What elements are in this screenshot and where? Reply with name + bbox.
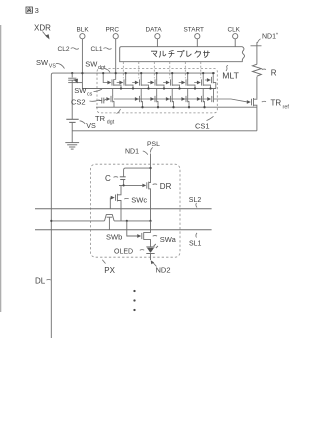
label SWa <box>153 235 157 238</box>
svg-text:SWa: SWa <box>160 235 177 244</box>
wire middle bus <box>82 88 216 90</box>
transistor DR <box>142 184 146 188</box>
transistor SWdgt row1 #5 <box>166 79 172 86</box>
transistor TRdgt row2 #5 <box>197 96 203 103</box>
svg-text:BLK: BLK <box>77 27 90 34</box>
junction dots middle bus <box>120 87 212 89</box>
transistor TRref <box>252 98 257 131</box>
svg-text:OLED: OLED <box>114 248 133 255</box>
junction dots top bus <box>71 72 214 74</box>
capacitor CS2 <box>99 98 107 104</box>
transistor SWvs <box>68 73 82 119</box>
svg-text:CS1: CS1 <box>195 121 210 130</box>
transistor SWa <box>127 221 151 247</box>
svg-text:ref: ref <box>283 105 290 111</box>
wire scan line SL1 <box>35 229 212 231</box>
svg-text:CL1: CL1 <box>91 46 103 53</box>
transistor TRdgt row2 #4 <box>181 96 187 103</box>
transistor SWc <box>110 185 121 221</box>
svg-text:SW: SW <box>85 60 98 69</box>
wire CL1 vertical from PRC <box>115 39 117 80</box>
svg-text:CLK: CLK <box>228 27 241 34</box>
transistor TRdgt row2 #3 <box>166 96 172 103</box>
svg-text:3: 3 <box>35 6 39 15</box>
wire ND1 to capacitor C <box>124 168 151 177</box>
svg-text:TR: TR <box>95 114 106 123</box>
ground <box>65 143 79 150</box>
svg-text:MLT: MLT <box>222 70 239 80</box>
svg-text:CS2: CS2 <box>71 98 86 107</box>
node ND2 <box>153 262 157 267</box>
transistor SWb <box>105 215 115 230</box>
svg-text:CL2: CL2 <box>58 46 70 53</box>
wire TRref gate feed <box>214 99 248 102</box>
junction node ND1 <box>149 167 151 169</box>
multiplexer label マルチプレクサ <box>151 51 157 57</box>
wire ND1' top tick <box>251 45 262 47</box>
wire row2 gate chain <box>114 98 207 100</box>
svg-text:START: START <box>184 27 204 34</box>
junction dots bottom bus <box>141 106 205 108</box>
transistor SWdgt row1 #2 <box>119 79 125 86</box>
wire CL2 vertical from BLK <box>81 39 83 89</box>
svg-text:C: C <box>105 174 111 183</box>
svg-text:ND1: ND1 <box>125 148 139 155</box>
battery VS source <box>66 119 78 142</box>
wire ND1' vertical upper <box>256 42 258 64</box>
svg-text:cs: cs <box>87 92 93 98</box>
wire PSL vertical <box>150 154 152 183</box>
svg-text:PRC: PRC <box>106 27 120 34</box>
transistor TRdgt row2 #2 <box>150 96 156 103</box>
transistor TRdgt row2 #1 <box>135 96 141 103</box>
wire scan line SL2 <box>35 208 212 210</box>
svg-text:SW: SW <box>36 58 49 67</box>
transistor TRdgt row2 right <box>207 96 213 103</box>
figure title 図3 <box>26 7 32 13</box>
diode OLED <box>146 244 158 260</box>
svg-text:SL1: SL1 <box>189 241 202 248</box>
svg-text:DATA: DATA <box>146 27 163 34</box>
label SWc <box>124 197 128 200</box>
transistor SWdgt row1 #7 <box>197 79 203 86</box>
transistor SWdgt row1 #3 <box>135 79 141 86</box>
transistor SWdgt row1 #6 <box>181 79 187 86</box>
wire DATA to multiplexer <box>156 39 158 47</box>
svg-text:DL: DL <box>35 277 46 286</box>
capacitor C <box>120 177 126 180</box>
multiplexer MLT box <box>120 47 243 62</box>
svg-text:dgt: dgt <box>107 120 115 126</box>
svg-text:SW: SW <box>74 86 87 95</box>
page edge artifact <box>0 25 2 312</box>
svg-text:R: R <box>271 68 277 77</box>
wire CLK to multiplexer <box>234 39 236 47</box>
transistor SWdgt row1 #8 (right) <box>207 77 213 84</box>
svg-text:SWb: SWb <box>106 232 122 241</box>
junction dots pixel wire <box>50 220 52 222</box>
transistor SWdgt row1 #4 <box>150 79 156 86</box>
svg-text:ND1*: ND1* <box>262 33 278 41</box>
dashed gate lines from multiplexer <box>122 62 124 78</box>
transistor SWcs <box>106 96 112 103</box>
svg-text:XDR: XDR <box>34 24 51 33</box>
transistor SWdgt row1 #1 <box>107 79 113 86</box>
dashed box PX pixel <box>90 164 180 257</box>
svg-text:VS: VS <box>86 121 96 130</box>
svg-text:PSL: PSL <box>147 141 160 148</box>
svg-text:ND2: ND2 <box>156 266 171 275</box>
wire bottom bus to TRref source node <box>96 106 257 108</box>
dashed box MLT switch array <box>97 69 217 113</box>
wire DL data line <box>50 78 52 338</box>
svg-text:SL2: SL2 <box>189 197 202 204</box>
wire C to DR gate <box>119 184 142 186</box>
svg-text:SWc: SWc <box>131 195 147 204</box>
svg-text:DR: DR <box>160 182 172 191</box>
label DR <box>153 183 157 186</box>
resistor R <box>252 64 261 76</box>
wire top bus / DL corner <box>51 73 215 78</box>
junction dot C bottom <box>123 184 125 186</box>
svg-text:PX: PX <box>104 266 115 275</box>
wire SWb to DR source <box>114 220 150 222</box>
wire DL to SWb <box>51 220 104 222</box>
svg-text:TR: TR <box>271 99 282 108</box>
wire START to multiplexer <box>196 39 198 47</box>
wire ND1' vertical lower <box>256 77 258 99</box>
ellipsis more pixels <box>133 290 135 311</box>
svg-text:VS: VS <box>49 64 57 70</box>
svg-text:dgt: dgt <box>98 65 106 71</box>
wire VS bus <box>72 130 257 132</box>
